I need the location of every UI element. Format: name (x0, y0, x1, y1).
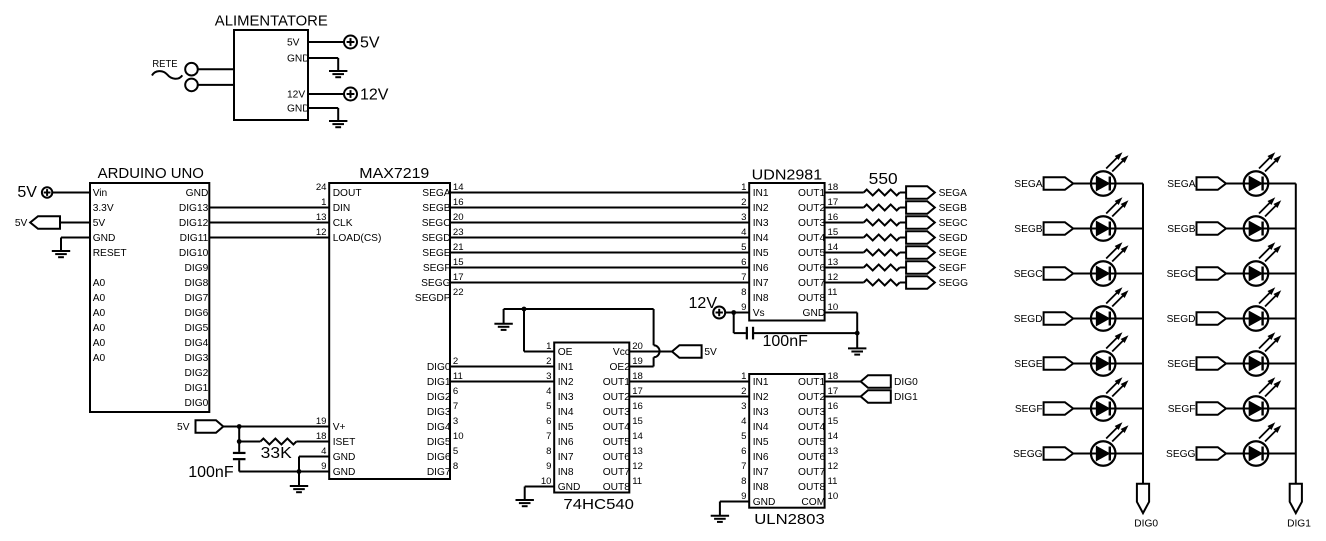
svg-text:IN8: IN8 (558, 467, 574, 478)
svg-text:ALIMENTATORE: ALIMENTATORE (215, 13, 328, 30)
svg-text:OUT1: OUT1 (798, 188, 826, 199)
svg-text:SEGD: SEGD (939, 233, 968, 244)
svg-text:Vs: Vs (753, 308, 765, 319)
svg-text:SEGC: SEGC (422, 218, 451, 229)
svg-text:IN7: IN7 (558, 452, 574, 463)
svg-text:OUT5: OUT5 (798, 437, 826, 448)
svg-text:100nF: 100nF (763, 333, 809, 350)
svg-text:DIG1: DIG1 (894, 392, 918, 403)
svg-text:DIG6: DIG6 (427, 452, 451, 463)
svg-text:GND: GND (753, 497, 776, 508)
svg-text:DIG3: DIG3 (185, 353, 209, 364)
svg-text:IN4: IN4 (753, 233, 769, 244)
svg-text:OUT1: OUT1 (603, 377, 631, 388)
svg-text:LOAD(CS): LOAD(CS) (333, 233, 382, 244)
svg-text:11: 11 (828, 476, 838, 487)
svg-text:15: 15 (828, 416, 839, 427)
svg-text:DIN: DIN (333, 203, 351, 214)
svg-text:DIG7: DIG7 (427, 467, 451, 478)
svg-text:5V: 5V (93, 218, 106, 229)
svg-text:OUT5: OUT5 (798, 248, 826, 259)
svg-text:6: 6 (546, 416, 551, 427)
svg-text:DIG12: DIG12 (179, 218, 209, 229)
svg-text:IN2: IN2 (558, 377, 574, 388)
svg-text:5: 5 (453, 446, 458, 457)
svg-text:IN4: IN4 (753, 422, 769, 433)
svg-text:SEGB: SEGB (939, 203, 968, 214)
svg-text:A0: A0 (93, 278, 106, 289)
svg-text:SEGA: SEGA (1167, 179, 1196, 190)
svg-text:DIG4: DIG4 (427, 422, 451, 433)
svg-text:OUT6: OUT6 (798, 263, 826, 274)
svg-text:IN8: IN8 (753, 482, 769, 493)
svg-text:10: 10 (828, 491, 839, 502)
svg-text:5V: 5V (360, 35, 380, 52)
svg-text:A0: A0 (93, 293, 106, 304)
svg-text:OE2: OE2 (610, 362, 631, 373)
svg-text:13: 13 (828, 446, 839, 457)
svg-text:12V: 12V (287, 89, 305, 100)
svg-text:DIG0: DIG0 (894, 377, 918, 388)
svg-text:SEGG: SEGG (421, 278, 451, 289)
svg-text:5V: 5V (177, 422, 190, 433)
svg-text:7: 7 (741, 461, 746, 472)
svg-text:OUT3: OUT3 (603, 407, 631, 418)
svg-text:GND: GND (333, 452, 356, 463)
svg-text:OUT1: OUT1 (798, 377, 826, 388)
svg-text:14: 14 (632, 431, 643, 442)
svg-text:OUT4: OUT4 (798, 233, 826, 244)
svg-text:ARDUINO UNO: ARDUINO UNO (98, 165, 204, 182)
svg-text:DIG5: DIG5 (427, 437, 451, 448)
svg-text:SEGF: SEGF (1015, 404, 1043, 415)
svg-text:DIG10: DIG10 (179, 248, 209, 259)
svg-text:SEGE: SEGE (939, 248, 968, 259)
svg-text:ULN2803: ULN2803 (754, 511, 825, 528)
svg-text:IN7: IN7 (753, 278, 769, 289)
svg-text:22: 22 (453, 287, 464, 298)
svg-text:CLK: CLK (333, 218, 353, 229)
svg-text:DIG2: DIG2 (185, 368, 209, 379)
svg-text:DIG4: DIG4 (185, 338, 209, 349)
svg-text:14: 14 (828, 431, 839, 442)
svg-text:5V: 5V (704, 347, 717, 358)
svg-text:33K: 33K (261, 445, 292, 462)
svg-text:DIG11: DIG11 (180, 233, 209, 244)
svg-text:UDN2981: UDN2981 (752, 166, 823, 183)
svg-text:SEGE: SEGE (1014, 359, 1043, 370)
svg-text:DIG13: DIG13 (179, 203, 209, 214)
svg-text:DIG2: DIG2 (427, 392, 451, 403)
svg-text:ISET: ISET (333, 437, 356, 448)
svg-text:SEGG: SEGG (1013, 449, 1043, 460)
svg-text:GND: GND (93, 233, 116, 244)
svg-text:IN7: IN7 (753, 467, 769, 478)
svg-text:DIG3: DIG3 (427, 407, 451, 418)
svg-text:5: 5 (546, 401, 551, 412)
svg-text:OUT4: OUT4 (603, 422, 631, 433)
svg-text:SEGC: SEGC (1167, 269, 1196, 280)
svg-text:IN6: IN6 (753, 263, 769, 274)
svg-text:OUT7: OUT7 (798, 467, 826, 478)
svg-text:6: 6 (741, 446, 746, 457)
svg-text:DIG0: DIG0 (427, 362, 451, 373)
svg-text:DIG1: DIG1 (185, 383, 209, 394)
svg-text:3: 3 (453, 416, 458, 427)
svg-text:550: 550 (869, 171, 898, 188)
svg-text:5V: 5V (15, 218, 28, 229)
svg-text:IN1: IN1 (558, 362, 574, 373)
svg-text:5: 5 (741, 431, 746, 442)
svg-text:GND: GND (186, 188, 209, 199)
svg-text:OUT5: OUT5 (603, 437, 631, 448)
svg-text:8: 8 (453, 461, 458, 472)
svg-text:OUT8: OUT8 (798, 293, 826, 304)
svg-text:Vcc: Vcc (613, 347, 630, 358)
svg-text:IN1: IN1 (753, 188, 769, 199)
svg-text:8: 8 (741, 476, 746, 487)
svg-text:OUT8: OUT8 (798, 482, 826, 493)
svg-text:GND: GND (558, 482, 581, 493)
svg-text:SEGB: SEGB (422, 203, 451, 214)
svg-text:SEGG: SEGG (1166, 449, 1196, 460)
svg-text:13: 13 (632, 446, 643, 457)
svg-text:OUT8: OUT8 (603, 482, 631, 493)
svg-text:3.3V: 3.3V (93, 203, 114, 214)
svg-text:SEGD: SEGD (1167, 314, 1196, 325)
svg-text:SEGB: SEGB (1014, 224, 1043, 235)
svg-text:IN5: IN5 (558, 422, 574, 433)
svg-text:SEGB: SEGB (1167, 224, 1196, 235)
svg-text:V+: V+ (333, 422, 346, 433)
svg-text:IN4: IN4 (558, 407, 574, 418)
svg-text:5V: 5V (287, 37, 300, 48)
svg-text:A0: A0 (93, 323, 106, 334)
svg-text:DIG1: DIG1 (427, 377, 451, 388)
svg-text:IN5: IN5 (753, 248, 769, 259)
svg-text:10: 10 (453, 431, 464, 442)
svg-text:4: 4 (741, 416, 747, 427)
svg-text:MAX7219: MAX7219 (359, 165, 429, 182)
svg-text:DIG0: DIG0 (185, 398, 209, 409)
svg-text:OUT2: OUT2 (798, 203, 826, 214)
svg-text:IN6: IN6 (558, 437, 574, 448)
svg-text:SEGC: SEGC (1014, 269, 1043, 280)
svg-text:DIG6: DIG6 (185, 308, 209, 319)
svg-text:8: 8 (546, 446, 551, 457)
svg-text:GND: GND (333, 467, 356, 478)
svg-text:OE: OE (558, 347, 573, 358)
svg-text:SEGE: SEGE (422, 248, 451, 259)
svg-text:SEGA: SEGA (939, 188, 968, 199)
svg-text:SEGC: SEGC (939, 218, 968, 229)
svg-text:5V: 5V (17, 184, 37, 201)
svg-text:100nF: 100nF (188, 464, 234, 481)
svg-text:OUT3: OUT3 (798, 407, 826, 418)
svg-text:SEGE: SEGE (1167, 359, 1196, 370)
svg-text:16: 16 (828, 401, 839, 412)
svg-text:IN5: IN5 (753, 437, 769, 448)
svg-text:7: 7 (453, 401, 458, 412)
svg-text:DIG1: DIG1 (1287, 519, 1311, 530)
svg-text:IN3: IN3 (753, 407, 769, 418)
svg-text:6: 6 (453, 386, 458, 397)
svg-text:SEGD: SEGD (422, 233, 451, 244)
svg-text:OUT7: OUT7 (603, 467, 631, 478)
svg-text:11: 11 (632, 476, 642, 487)
svg-text:4: 4 (546, 386, 552, 397)
svg-text:SEGF: SEGF (423, 263, 451, 274)
svg-text:11: 11 (828, 287, 838, 298)
svg-text:74HC540: 74HC540 (563, 496, 634, 513)
svg-text:IN2: IN2 (753, 203, 769, 214)
svg-text:OUT3: OUT3 (798, 218, 826, 229)
svg-text:GND: GND (287, 53, 310, 64)
svg-text:OUT6: OUT6 (603, 452, 631, 463)
svg-text:24: 24 (316, 182, 327, 193)
svg-text:GND: GND (803, 308, 826, 319)
svg-text:SEGA: SEGA (422, 188, 451, 199)
svg-text:SEGDP: SEGDP (415, 293, 451, 304)
svg-text:RESET: RESET (93, 248, 127, 259)
svg-text:OUT4: OUT4 (798, 422, 826, 433)
svg-text:DIG0: DIG0 (1134, 519, 1158, 530)
svg-text:IN1: IN1 (753, 377, 769, 388)
svg-text:OUT7: OUT7 (798, 278, 826, 289)
svg-text:12: 12 (828, 461, 839, 472)
svg-text:DIG8: DIG8 (185, 278, 209, 289)
svg-text:12: 12 (632, 461, 643, 472)
svg-text:DIG5: DIG5 (185, 323, 209, 334)
svg-text:3: 3 (741, 401, 746, 412)
svg-text:8: 8 (741, 287, 746, 298)
svg-text:DIG9: DIG9 (185, 263, 209, 274)
svg-text:DOUT: DOUT (333, 188, 362, 199)
svg-text:IN3: IN3 (558, 392, 574, 403)
svg-text:12V: 12V (360, 86, 389, 103)
svg-text:IN8: IN8 (753, 293, 769, 304)
svg-text:IN2: IN2 (753, 392, 769, 403)
svg-text:SEGF: SEGF (939, 263, 967, 274)
svg-text:OUT2: OUT2 (603, 392, 631, 403)
svg-text:GND: GND (287, 103, 310, 114)
svg-text:A0: A0 (93, 353, 106, 364)
svg-text:16: 16 (632, 401, 643, 412)
svg-text:IN6: IN6 (753, 452, 769, 463)
svg-text:SEGD: SEGD (1014, 314, 1043, 325)
svg-text:OUT2: OUT2 (798, 392, 826, 403)
svg-text:IN3: IN3 (753, 218, 769, 229)
svg-text:COM: COM (801, 497, 825, 508)
svg-text:SEGA: SEGA (1014, 179, 1043, 190)
svg-text:15: 15 (632, 416, 643, 427)
svg-text:7: 7 (546, 431, 551, 442)
svg-text:SEGF: SEGF (1168, 404, 1196, 415)
svg-text:A0: A0 (93, 308, 106, 319)
svg-text:DIG7: DIG7 (185, 293, 209, 304)
svg-text:SEGG: SEGG (939, 278, 969, 289)
svg-text:OUT6: OUT6 (798, 452, 826, 463)
svg-text:A0: A0 (93, 338, 106, 349)
svg-text:9: 9 (546, 461, 551, 472)
svg-text:RETE: RETE (152, 59, 177, 70)
svg-text:Vin: Vin (93, 188, 108, 199)
